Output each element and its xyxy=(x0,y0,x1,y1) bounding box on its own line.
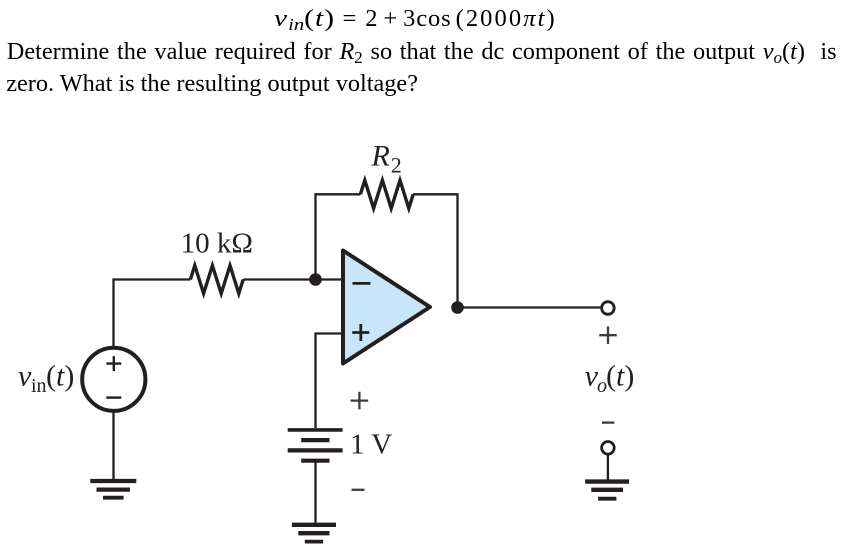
svg-text:R: R xyxy=(371,140,390,173)
svg-text:(t): (t) xyxy=(46,360,74,393)
svg-text:(t): (t) xyxy=(606,360,634,393)
svg-text:in: in xyxy=(31,375,47,397)
svg-text:2: 2 xyxy=(391,152,402,177)
svg-text:1 V: 1 V xyxy=(350,429,392,461)
svg-text:10 kΩ: 10 kΩ xyxy=(181,228,253,260)
svg-text:v: v xyxy=(18,360,32,393)
